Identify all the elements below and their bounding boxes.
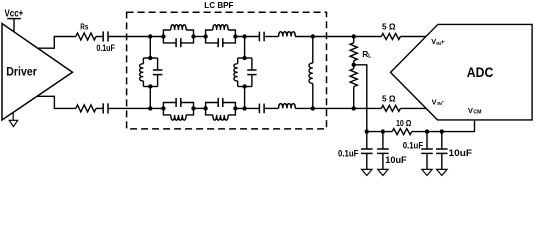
capacitor 10uF decoupling #4 [441, 132, 443, 149]
wire 5ohm to ADC VIN- [400, 107, 426, 109]
junction dot shunt2 upper [242, 56, 246, 60]
junction dot shunt2 top [242, 34, 246, 38]
svg-text:LC BPF: LC BPF [204, 1, 233, 10]
supply Vcc+ symbol [7, 18, 20, 20]
wire 10ohm left segment [367, 131, 392, 133]
wire Rs2 to C2 [96, 107, 103, 109]
junction dot top-in [148, 34, 152, 38]
svg-text:CM: CM [473, 110, 481, 116]
svg-text:Rs: Rs [80, 22, 88, 32]
junction dot vcm4 [440, 129, 444, 133]
ground symbol #1 [362, 169, 372, 175]
inductor L8 shunt2 + stems [244, 37, 246, 59]
wire driver output- to Rs2 [37, 96, 76, 108]
capacitor 0.1uF bottom coupling (unlabeled) [102, 103, 104, 113]
node dot L1 right [191, 34, 195, 38]
LC BPF dashed boundary box [127, 12, 327, 129]
resistor Rs [76, 33, 96, 40]
junction dot vcm3 [425, 129, 429, 133]
resistor Rs2 (unlabeled) [76, 105, 96, 112]
inductor L1 (series-parallel top) [163, 30, 170, 37]
inductor L7 shunt1 + stems [149, 37, 151, 59]
ground symbol #3 [422, 169, 432, 175]
node dot L2 right [233, 34, 237, 38]
capacitor C10 shunt2 [251, 58, 253, 70]
junction dot shunt2 bottom [242, 106, 246, 110]
junction dot vcm1 [365, 129, 369, 133]
capacitor 0.1uF decoupling #3 [426, 132, 428, 149]
node dot L4 left [203, 106, 207, 110]
svg-text:10 Ω: 10 Ω [396, 119, 412, 128]
capacitor 10uF decoupling #2 [382, 132, 384, 149]
capacitor C3 (parallel with L1) [163, 37, 176, 43]
svg-text:L: L [368, 54, 372, 60]
junction dot shunt2 lower [242, 84, 246, 88]
wire LC3-LC4 bottom [194, 107, 206, 109]
resistor 10ohm [392, 129, 412, 135]
wire driver output+ to Rs [37, 37, 76, 49]
wire C8 to L6 [264, 107, 279, 109]
wire 5ohm to ADC VIN+ [400, 36, 426, 38]
junction dot vcm2 [381, 129, 385, 133]
junction dot RL top [352, 34, 356, 38]
wire L5 to top-out [295, 36, 381, 38]
capacitor C4 (parallel with L2) [206, 37, 219, 43]
svg-text:0.1uF: 0.1uF [403, 141, 424, 152]
resistor RL lower half [353, 65, 355, 69]
svg-text:5 Ω: 5 Ω [382, 95, 396, 104]
svg-text:+: + [441, 39, 445, 46]
wire C2 into LC BPF [108, 107, 163, 109]
wire L6 to bottom-out [295, 107, 381, 109]
resistor 5ohm bottom [381, 105, 400, 111]
node dot L3 right [191, 106, 195, 110]
junction dot shunt1 lower [148, 84, 152, 88]
inductor L2 (series-parallel top) [206, 30, 213, 37]
wire Rs to C1 [96, 36, 103, 38]
ADC block [391, 24, 533, 120]
junction dot RL center tap [352, 63, 356, 67]
svg-text:0.1uF: 0.1uF [338, 148, 359, 159]
ground symbol #4 [437, 169, 447, 175]
svg-text:V: V [432, 97, 437, 106]
capacitor 0.1uF top coupling [102, 31, 104, 41]
junction dot bottom-in [148, 106, 152, 110]
node dot L3 left [161, 106, 165, 110]
svg-text:Driver: Driver [6, 65, 37, 79]
ground symbol #2 [378, 169, 388, 175]
capacitor C5 series top [258, 32, 260, 42]
junction dot shunt1 upper [148, 56, 152, 60]
capacitor C9 shunt1 [157, 58, 159, 70]
svg-text:10uF: 10uF [385, 155, 406, 166]
inductor L9 shunt right [312, 37, 314, 64]
capacitor C6 (parallel bottom) [163, 103, 176, 109]
junction dot RL bottom [352, 106, 356, 110]
node dot L2 left [203, 34, 207, 38]
wire ADC VCM pin down-left [412, 120, 475, 132]
wire RL center tap to VCM net [354, 65, 367, 132]
svg-text:5 Ω: 5 Ω [382, 22, 396, 31]
junction dot shunt3 top [311, 34, 315, 38]
capacitor 0.1uF decoupling #1 [366, 132, 368, 149]
svg-text:Vcc+: Vcc+ [5, 8, 24, 19]
wire LC4 to series cap bottom [235, 107, 259, 109]
junction dot shunt3 bottom [311, 106, 315, 110]
svg-text:-: - [442, 100, 444, 106]
driver U1 amplifier triangle [2, 24, 73, 121]
svg-text:ADC: ADC [467, 65, 494, 80]
resistor 5ohm top [381, 34, 400, 40]
inductor L3 (series-parallel bottom) [163, 108, 170, 115]
node dot L1 left [161, 34, 165, 38]
supply Vcc- arrow symbol [12, 112, 14, 120]
svg-text:0.1uF: 0.1uF [96, 43, 115, 54]
node dot L4 right [233, 106, 237, 110]
wire LC1-LC2 top [194, 36, 206, 38]
wire C5 to L5 [264, 36, 279, 38]
svg-text:10uF: 10uF [449, 148, 473, 159]
inductor L4 (series-parallel bottom) [206, 108, 213, 115]
wire LC2 to series cap top [235, 36, 259, 38]
capacitor C7 (parallel bottom) [206, 103, 219, 109]
inductor L5 series top [279, 32, 296, 37]
inductor L6 series bottom [279, 104, 296, 109]
capacitor C8 series bottom [258, 104, 260, 114]
wire C1 into LC BPF [108, 36, 163, 38]
resistor RL upper half [353, 37, 355, 43]
